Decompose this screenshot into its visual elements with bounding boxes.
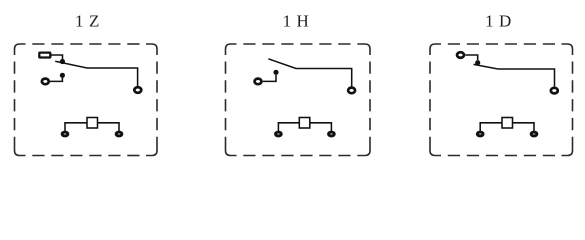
coil terminal A2 (1H) xyxy=(329,132,335,136)
wire NO contact to NO terminal xyxy=(50,75,62,81)
wire coil left (1H) xyxy=(278,123,299,131)
common terminal pin xyxy=(134,87,141,93)
relay 1D enclosure (dashed) xyxy=(430,44,573,156)
svg-text:1 H: 1 H xyxy=(283,12,310,31)
wire coil left (1D) xyxy=(480,123,502,131)
coil 1H xyxy=(299,118,310,129)
wire NO terminal to NO contact (1H) xyxy=(263,75,276,81)
movable contact armature (open) (1H) xyxy=(268,59,351,87)
NO fixed contact dot xyxy=(60,73,65,78)
svg-text:1 D: 1 D xyxy=(485,12,512,31)
wire coil right (1D) xyxy=(513,123,535,131)
NC fixed contact dot (1D) xyxy=(475,60,480,65)
coil terminal A2 (1D) xyxy=(531,132,537,136)
NO fixed contact dot (1H) xyxy=(273,70,278,75)
svg-text:1 Z: 1 Z xyxy=(75,12,100,31)
NO fixed contact terminal pin (1H) xyxy=(255,79,262,85)
wire coil right xyxy=(98,123,120,131)
coil terminal A1 (1H) xyxy=(276,132,282,136)
NC fixed contact terminal (rect pin) xyxy=(39,53,50,58)
coil terminal A1 xyxy=(62,132,68,136)
coil 1D xyxy=(502,118,513,129)
coil 1Z xyxy=(87,118,98,129)
relay 1Z enclosure (dashed) xyxy=(15,44,158,156)
common terminal pin (1H) xyxy=(348,88,355,94)
wire NC terminal to NC contact xyxy=(51,55,63,60)
NO fixed contact terminal pin xyxy=(42,79,49,85)
NC fixed contact terminal pin (1D) xyxy=(457,52,464,58)
coil terminal A2 xyxy=(116,132,122,136)
movable contact armature (closed onto NC) (1D) xyxy=(474,64,555,86)
relay 1H enclosure (dashed) xyxy=(226,44,371,156)
NC fixed contact dot xyxy=(60,59,65,64)
wire coil right (1H) xyxy=(310,123,332,131)
movable contact armature (closed onto NC) xyxy=(55,61,137,86)
wire coil left xyxy=(65,123,87,131)
common terminal pin (1D) xyxy=(551,88,558,94)
wire NC terminal to NC contact (1D) xyxy=(465,55,477,60)
coil terminal A1 (1D) xyxy=(477,132,483,136)
